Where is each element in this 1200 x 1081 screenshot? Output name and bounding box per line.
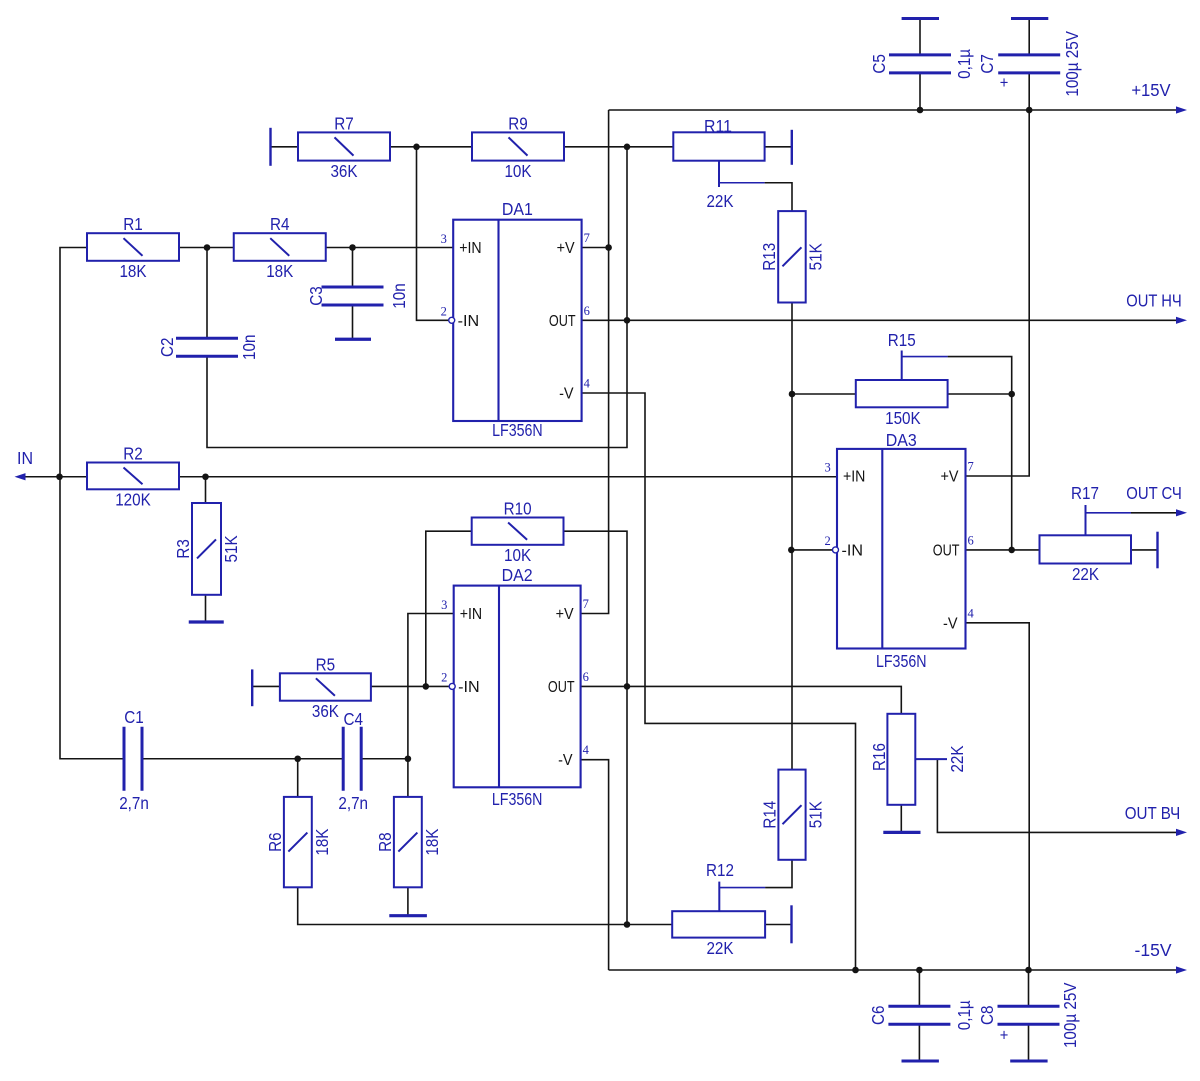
- capacitor C3 10n: [306, 283, 409, 308]
- svg-text:10K: 10K: [504, 545, 531, 565]
- ground C3: [335, 338, 371, 341]
- wire +15V rail: [609, 109, 1177, 111]
- svg-text:DA1: DA1: [502, 199, 533, 219]
- wire R5 terminal stub: [252, 685, 280, 687]
- svg-text:10n: 10n: [239, 335, 259, 360]
- ground R8: [389, 914, 427, 917]
- wire DA3 OUT to R17: [966, 549, 1040, 551]
- wire C3 bottom to ground: [352, 305, 354, 339]
- capacitor C4 2,7n: [338, 709, 368, 813]
- svg-text:R3: R3: [173, 539, 193, 559]
- svg-text:100µ 25V: 100µ 25V: [1062, 31, 1082, 97]
- junction DA1 OUT/C2: [624, 317, 631, 324]
- svg-text:+IN: +IN: [460, 606, 482, 623]
- svg-text:IN: IN: [17, 448, 33, 468]
- wire R17 right terminal stub: [1131, 549, 1158, 551]
- svg-text:+: +: [1000, 1026, 1009, 1045]
- inverting input circle DA1: [449, 317, 455, 323]
- svg-text:2: 2: [441, 671, 447, 685]
- op-amp DA2 LF356N: [454, 586, 581, 788]
- junction R9/R11/feedback: [624, 144, 631, 151]
- wire DA1 -IN vertical: [417, 147, 449, 320]
- wire R6 bottom to R12: [298, 887, 673, 924]
- capacitor C7 100µ 25V: [977, 31, 1082, 97]
- wire C7 lower stem: [1028, 73, 1030, 110]
- potentiometer R16 22K: [869, 714, 967, 805]
- wire R5 to DA2 -IN: [371, 685, 449, 687]
- svg-text:R10: R10: [504, 499, 532, 519]
- svg-text:+V: +V: [941, 469, 959, 486]
- svg-text:51K: 51K: [806, 801, 826, 828]
- svg-text:7: 7: [584, 231, 590, 245]
- junction R13/R15: [789, 391, 796, 398]
- svg-text:R6: R6: [265, 832, 285, 852]
- svg-text:150K: 150K: [885, 408, 921, 428]
- junction R2/R3 node: [202, 473, 209, 480]
- svg-text:0,1µ: 0,1µ: [954, 1000, 974, 1030]
- svg-text:18K: 18K: [422, 828, 442, 855]
- wire DA3 +V to +15V rail: [966, 110, 1030, 476]
- capacitor C1 2,7n: [119, 707, 149, 813]
- resistor R10 10K: [472, 499, 564, 566]
- svg-text:3: 3: [441, 598, 447, 612]
- svg-text:R16: R16: [869, 743, 889, 771]
- wire +V supply column to DA1/DA2: [581, 110, 609, 614]
- inverting input circle DA2: [449, 683, 455, 689]
- junction C4/R8/DA2 +IN: [405, 755, 412, 762]
- resistor R6 18K: [265, 797, 332, 887]
- svg-text:LF356N: LF356N: [492, 789, 543, 809]
- svg-text:OUT: OUT: [933, 542, 960, 559]
- svg-text:18K: 18K: [312, 828, 332, 855]
- wire R17 wiper to OUT СЧ arrow: [1131, 512, 1177, 514]
- wire C2 bottom return to DA1 OUT: [207, 147, 627, 448]
- wire R16 bottom to ground: [900, 805, 902, 833]
- capacitor C8 100µ 25V: [977, 982, 1080, 1048]
- potentiometer R12 22K: [672, 860, 765, 958]
- resistor R5 36K: [280, 654, 371, 721]
- svg-text:OUT: OUT: [548, 679, 575, 696]
- svg-text:-IN: -IN: [458, 313, 480, 330]
- svg-text:4: 4: [584, 377, 591, 391]
- svg-text:6: 6: [584, 304, 590, 318]
- junction C7/DA3 +V on +15V: [1026, 107, 1033, 114]
- wire R15 left stub: [792, 393, 856, 395]
- svg-text:OUT: OUT: [549, 313, 576, 330]
- junction DA1 +V rail: [605, 244, 612, 251]
- svg-text:DA3: DA3: [886, 430, 917, 450]
- svg-text:+: +: [1000, 73, 1009, 92]
- wire C8 upper stem: [1028, 970, 1030, 1006]
- open terminal R7 left: [269, 128, 271, 166]
- net arrow +15V: [1176, 106, 1187, 113]
- svg-text:22K: 22K: [1072, 564, 1099, 584]
- junction R6/R12 node: [624, 921, 631, 928]
- svg-text:R7: R7: [334, 113, 354, 133]
- net arrow IN: [15, 473, 26, 480]
- wire C7 upper stem: [1028, 19, 1030, 55]
- wire R10 left to DA2 -IN node: [426, 531, 472, 686]
- wire C8 lower stem: [1028, 1024, 1030, 1061]
- svg-text:LF356N: LF356N: [492, 420, 543, 440]
- junction DA1 -V on -15V: [852, 967, 859, 974]
- open terminal C7 top: [1011, 17, 1048, 20]
- wire R3 to ground: [205, 595, 207, 622]
- net arrow OUT ВЧ: [1176, 829, 1187, 836]
- open terminal R5 left: [251, 669, 253, 706]
- svg-text:R9: R9: [508, 113, 528, 133]
- svg-text:R11: R11: [704, 116, 732, 136]
- junction DA2 OUT node: [624, 683, 631, 690]
- resistor R4 18K: [234, 214, 326, 281]
- resistor R3 51K: [173, 503, 241, 595]
- svg-text:C1: C1: [124, 707, 144, 727]
- wire R7 terminal stub: [271, 146, 299, 148]
- svg-text:18K: 18K: [119, 261, 146, 281]
- svg-text:10n: 10n: [389, 283, 409, 308]
- svg-text:R8: R8: [375, 832, 395, 852]
- wire R12 wiper to R14: [765, 860, 792, 888]
- svg-text:R17: R17: [1071, 483, 1099, 503]
- wire DA2 OUT to R16: [581, 686, 902, 713]
- svg-text:18K: 18K: [266, 261, 293, 281]
- svg-text:-V: -V: [558, 752, 573, 769]
- svg-text:R4: R4: [270, 214, 290, 234]
- svg-text:-V: -V: [559, 386, 574, 403]
- svg-text:7: 7: [968, 460, 974, 474]
- net arrow OUT СЧ: [1176, 509, 1187, 516]
- potentiometer R17 22K: [1040, 483, 1132, 584]
- svg-text:4: 4: [583, 743, 590, 757]
- open terminal R11 right: [791, 130, 793, 165]
- open terminal R17 right: [1156, 532, 1158, 569]
- resistor R13 51K: [759, 211, 826, 302]
- svg-text:-IN: -IN: [458, 679, 480, 696]
- capacitor C5 0,1µ: [869, 49, 974, 79]
- svg-text:-IN: -IN: [842, 542, 864, 559]
- ground R16: [883, 831, 920, 834]
- potentiometer R11 22K: [673, 116, 764, 211]
- wire DA3 -IN node to R14: [791, 550, 793, 770]
- junction DA3 OUT/R17: [1008, 547, 1015, 554]
- wire R8 bottom to ground: [407, 887, 409, 915]
- svg-text:36K: 36K: [312, 701, 339, 721]
- op-amp DA3 LF356N: [837, 449, 966, 649]
- svg-text:C7: C7: [977, 54, 997, 74]
- svg-text:+15V: +15V: [1131, 80, 1171, 100]
- svg-text:120K: 120K: [115, 490, 151, 510]
- op-amp DA1 LF356N: [453, 220, 581, 421]
- wire -15V rail: [609, 969, 1177, 971]
- junction R15/DA3 -IN: [788, 547, 795, 554]
- svg-text:51K: 51K: [806, 243, 826, 270]
- wire R8 top stub: [407, 759, 409, 797]
- open terminal C6 bottom: [902, 1060, 939, 1063]
- resistor R9 10K: [472, 113, 564, 181]
- net arrow OUT НЧ: [1176, 317, 1187, 324]
- wire input trunk vertical: [60, 248, 124, 759]
- svg-text:C5: C5: [869, 54, 889, 74]
- svg-text:3: 3: [824, 460, 830, 474]
- svg-text:C2: C2: [157, 338, 177, 358]
- wire R15 wiper link: [948, 357, 1012, 550]
- junction R1/R4/C2: [204, 244, 211, 251]
- svg-text:2: 2: [441, 305, 447, 319]
- junction R15/wiper: [1008, 391, 1015, 398]
- junction IN node: [56, 473, 63, 480]
- svg-text:C6: C6: [868, 1006, 888, 1026]
- svg-text:R13: R13: [759, 243, 779, 271]
- potentiometer R15 150K: [856, 330, 948, 428]
- open terminal C8 bottom: [1010, 1060, 1047, 1063]
- wire C4 to R8 node: [362, 758, 408, 760]
- svg-text:+V: +V: [556, 606, 574, 623]
- wire R11 right terminal stub: [765, 146, 792, 148]
- svg-text:C4: C4: [343, 709, 363, 729]
- wire DA1 OUT to OUT НЧ arrow: [582, 319, 1177, 321]
- open terminal C5 top: [902, 17, 939, 20]
- wire R15 right stub: [948, 393, 1012, 395]
- svg-text:+IN: +IN: [459, 240, 481, 257]
- resistor R2 120K: [87, 444, 179, 510]
- wire DA2 -V to -15V rail: [581, 760, 609, 970]
- wire DA3 -V to -15V rail: [966, 623, 1030, 970]
- junction C5 on +15V: [917, 107, 924, 114]
- resistor R7 36K: [298, 113, 390, 181]
- junction C8/DA3 -V on -15V: [1025, 967, 1032, 974]
- wire R4 to DA1 +IN: [326, 247, 453, 249]
- svg-text:22K: 22K: [706, 191, 733, 211]
- capacitor C2 10n: [157, 335, 259, 360]
- wire C5 lower stem: [919, 73, 921, 110]
- svg-text:6: 6: [583, 670, 589, 684]
- svg-text:10K: 10K: [504, 161, 531, 181]
- svg-text:+V: +V: [557, 240, 575, 257]
- wire R13 to R15/DA3 -IN node: [792, 303, 834, 550]
- svg-text:6: 6: [968, 533, 974, 547]
- capacitor C6 0,1µ: [868, 1000, 974, 1030]
- wire R9 to R11: [564, 146, 673, 148]
- svg-text:0,1µ: 0,1µ: [954, 49, 974, 79]
- wire R16 wiper to OUT ВЧ arrow: [937, 759, 1177, 832]
- svg-text:22K: 22K: [706, 938, 733, 958]
- net arrow -15V: [1176, 966, 1187, 973]
- junction R7/R9/DA1 -IN: [413, 144, 420, 151]
- wire C3 top: [352, 248, 354, 288]
- svg-text:2,7n: 2,7n: [119, 793, 149, 813]
- svg-text:R1: R1: [123, 214, 143, 234]
- wire C2 top: [206, 248, 208, 339]
- open terminal R12 right: [790, 905, 792, 943]
- svg-text:2: 2: [824, 534, 830, 548]
- svg-text:R5: R5: [316, 654, 336, 674]
- svg-text:C8: C8: [977, 1006, 997, 1026]
- svg-text:R15: R15: [888, 330, 916, 350]
- svg-text:C3: C3: [306, 286, 326, 306]
- wire R1-R4 junction link: [179, 247, 234, 249]
- wire R10 right to DA2 OUT column: [564, 531, 628, 924]
- junction R4/C3/DA1 +IN: [349, 244, 356, 251]
- svg-text:R2: R2: [123, 444, 143, 464]
- resistor R1 18K: [87, 214, 179, 281]
- wire DA1 +V pin stub: [582, 247, 609, 249]
- wire C1 to C4/R6 node: [142, 758, 343, 760]
- wire R2 output line to DA3 +IN: [179, 476, 837, 478]
- svg-text:OUT НЧ: OUT НЧ: [1126, 291, 1182, 311]
- svg-text:3: 3: [441, 232, 447, 246]
- svg-text:LF356N: LF356N: [876, 651, 927, 671]
- wire IN line left segment: [20, 476, 87, 478]
- junction C1/C4/R6: [294, 755, 301, 762]
- svg-text:-15V: -15V: [1135, 940, 1172, 960]
- svg-text:DA2: DA2: [502, 565, 533, 585]
- svg-text:R12: R12: [706, 860, 734, 880]
- wire C5 upper stem: [919, 19, 921, 55]
- junction R10/R5/DA2 -IN: [423, 683, 430, 690]
- svg-text:4: 4: [968, 606, 975, 620]
- svg-text:R14: R14: [759, 801, 779, 829]
- junction C6 on -15V: [916, 967, 923, 974]
- wire DA1 -V to -15V rail: [582, 393, 856, 970]
- wire R2 output vertical R3: [205, 477, 207, 503]
- wire R11 wiper to R13: [765, 183, 792, 211]
- wire C6 lower stem: [918, 1024, 920, 1061]
- svg-text:-V: -V: [943, 615, 958, 632]
- svg-text:100µ 25V: 100µ 25V: [1060, 982, 1080, 1048]
- svg-text:2,7n: 2,7n: [338, 793, 368, 813]
- svg-text:OUT СЧ: OUT СЧ: [1126, 483, 1182, 503]
- svg-text:22K: 22K: [947, 745, 967, 772]
- resistor R14 51K: [759, 770, 825, 860]
- svg-text:7: 7: [583, 597, 589, 611]
- svg-text:51K: 51K: [221, 535, 241, 562]
- resistor R8 18K: [375, 797, 442, 887]
- wire C6 upper stem: [918, 970, 920, 1006]
- wire R12 right terminal stub: [765, 924, 791, 926]
- wire R7-R9 junction link: [390, 146, 472, 148]
- svg-text:OUT ВЧ: OUT ВЧ: [1125, 803, 1181, 823]
- svg-text:+IN: +IN: [843, 469, 865, 486]
- inverting input circle DA3: [833, 547, 839, 553]
- svg-text:36K: 36K: [330, 161, 357, 181]
- wire R6 top stub: [297, 759, 299, 797]
- ground R3: [189, 620, 224, 623]
- wire DA2 +IN to C4/R8 node: [408, 614, 454, 759]
